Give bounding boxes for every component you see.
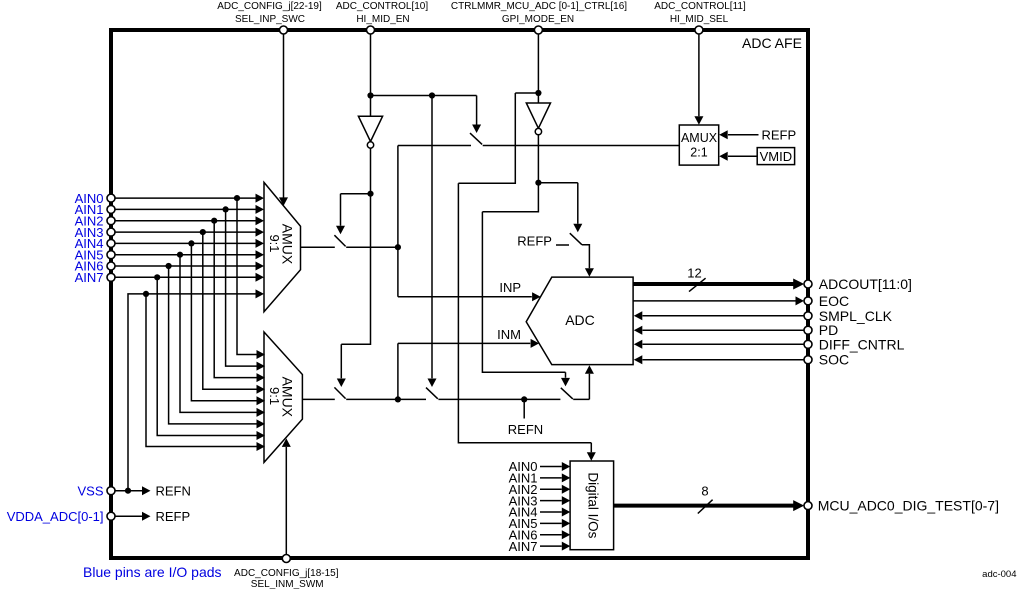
arrow AIN1 into U2	[257, 362, 266, 371]
arrow VSS into U1	[256, 289, 265, 298]
svg-text:SOC: SOC	[819, 352, 849, 368]
node AIN6 branch	[166, 263, 172, 269]
arrow AIN3 into U1	[256, 228, 265, 237]
arrow S6 control	[561, 378, 570, 387]
svg-text:AMUX: AMUX	[681, 131, 718, 145]
arrow VSS into U2	[257, 442, 266, 451]
arrow DIFF_CNTRL into U3	[634, 340, 643, 349]
wire AIN1 to U2	[226, 209, 257, 366]
inverter U6	[358, 116, 382, 141]
arrow AIN6 into U1	[256, 262, 265, 271]
pin ADCOUT[11:0]	[804, 280, 812, 288]
wire GPI_MODE_EN down to U7	[537, 34, 539, 103]
wire AIN4 to U2	[191, 243, 256, 400]
wire AIN6 to U5	[540, 534, 562, 536]
node AIN1 branch	[223, 206, 229, 212]
arrow REFN stub	[142, 486, 151, 495]
arrow AIN0 into U5	[562, 462, 571, 471]
svg-text:8: 8	[701, 484, 708, 499]
arrow AIN4 into U1	[256, 239, 265, 248]
node REFN	[521, 396, 527, 402]
svg-text:SEL_INP_SWC: SEL_INP_SWC	[235, 14, 305, 25]
arrow AIN6 into U2	[257, 419, 266, 428]
pin AIN3	[107, 228, 115, 236]
inverter U6 bubble	[367, 142, 373, 148]
node N2	[395, 396, 401, 402]
arrow into U5 enable	[587, 452, 596, 461]
wire U2 output to switch S3	[302, 398, 334, 400]
svg-text:12: 12	[687, 266, 701, 281]
wire VMID into U4	[728, 155, 757, 157]
pin SEL_INM_SWM	[282, 555, 290, 563]
arrow AIN0 into U2	[257, 350, 266, 359]
wire HI_MID_SEL to U4	[698, 34, 700, 116]
vmid reference box	[757, 148, 794, 165]
svg-text:REFN: REFN	[156, 483, 191, 498]
node AIN7 branch	[154, 274, 160, 280]
arrow S5 control	[573, 224, 582, 233]
pin AIN4	[107, 239, 115, 247]
svg-text:REFP: REFP	[762, 127, 797, 142]
wire VDDA to REFP stub	[115, 515, 142, 517]
wire REFP into U4	[728, 134, 759, 136]
wire SEL_INP_SWC to U1	[283, 34, 285, 198]
wire S3 to node N2	[346, 398, 398, 400]
arrow VMID into U4	[719, 152, 728, 161]
arrow bus MCU_ADC0_DIG_TEST	[793, 500, 804, 511]
switch S2	[334, 235, 345, 246]
arrow AIN3 into U5	[562, 496, 571, 505]
svg-text:VMID: VMID	[760, 149, 793, 164]
svg-text:ADC_CONFIG_j[22-19]: ADC_CONFIG_j[22-19]	[217, 1, 322, 12]
wire U6 output to node H3 and S3 corner	[341, 148, 370, 378]
wire SMPL_CLK	[643, 315, 805, 317]
wire AIN1 to U1	[115, 208, 256, 210]
node H1	[367, 92, 373, 98]
arrow S2 control	[336, 226, 345, 235]
arrow AIN7 into U2	[257, 431, 266, 440]
node G1	[535, 90, 541, 96]
wire REFN rail	[438, 398, 560, 400]
svg-text:ADC_CONTROL[11]: ADC_CONTROL[11]	[654, 1, 746, 12]
arrow AIN5 into U2	[257, 408, 266, 417]
svg-text:INP: INP	[499, 280, 521, 295]
wire AIN7 to U1	[115, 276, 256, 278]
svg-text:MCU_ADC0_DIG_TEST[0-7]: MCU_ADC0_DIG_TEST[0-7]	[818, 498, 999, 514]
pin AIN2	[107, 217, 115, 225]
pin PD	[804, 326, 812, 334]
switch S6	[561, 388, 573, 399]
svg-text:ADCOUT[11:0]: ADCOUT[11:0]	[819, 276, 912, 292]
switch S1	[470, 133, 482, 144]
pin VSS	[107, 487, 115, 495]
node AIN0 branch	[234, 195, 240, 201]
wire AIN3 to U1	[115, 231, 256, 233]
switch S4	[426, 388, 438, 399]
wire VSS to U1 ninth input	[128, 294, 256, 491]
arrow AIN2 into U5	[562, 485, 571, 494]
arrow AIN7 into U1	[256, 273, 265, 282]
wire AIN1 to U5	[540, 477, 562, 479]
wire AIN2 to U2	[214, 221, 256, 378]
wire AIN5 to U1	[115, 254, 256, 256]
slash bus MCU_ADC0_DIG_TEST	[698, 500, 713, 514]
node AIN3 branch	[200, 229, 206, 235]
amux U1 9:1 top	[264, 182, 301, 311]
wire AIN4 to U5	[540, 511, 562, 513]
arrow AIN4 into U2	[257, 396, 266, 405]
wire S6 to U3 refn	[573, 374, 589, 400]
pin SOC	[804, 356, 812, 364]
svg-text:AIN7: AIN7	[75, 270, 104, 285]
node VSS branch	[125, 488, 131, 494]
node G2	[535, 180, 541, 186]
wire U7 output down	[482, 135, 565, 378]
wire node N2 to switch S4	[398, 398, 426, 400]
node AIN2 branch	[211, 218, 217, 224]
svg-text:REFN: REFN	[508, 422, 543, 437]
wire S2 to node N1	[346, 246, 398, 248]
pin AIN6	[107, 262, 115, 270]
bus MCU_ADC0_DIG_TEST 8	[614, 504, 794, 508]
arrow INM into U3	[531, 339, 540, 348]
wire AIN7 to U5	[540, 545, 562, 547]
wire AIN7 to U2	[157, 277, 256, 435]
svg-text:REFP: REFP	[517, 234, 552, 249]
arrow REFP stub	[142, 512, 151, 521]
pin VDDA_ADC	[107, 512, 115, 520]
slash bus ADCOUT	[689, 278, 706, 291]
adc core U3	[526, 277, 633, 365]
arrow AIN1 into U1	[256, 205, 265, 214]
wire REFP stub	[556, 244, 569, 246]
svg-text:ADC_CONTROL[10]: ADC_CONTROL[10]	[336, 1, 428, 12]
svg-text:EOC: EOC	[819, 293, 849, 309]
wire AIN0 to U5	[540, 466, 562, 468]
arrow AIN3 into U2	[257, 385, 266, 394]
svg-text:AIN7: AIN7	[509, 539, 538, 554]
svg-text:DIFF_CNTRL: DIFF_CNTRL	[819, 336, 905, 352]
svg-text:ADC_CONFIG_j[18-15]: ADC_CONFIG_j[18-15]	[234, 568, 339, 579]
node AIN4 branch	[188, 240, 194, 246]
wire SOC	[643, 359, 805, 361]
svg-text:CTRLMMR_MCU_ADC [0-1]_CTRL[16]: CTRLMMR_MCU_ADC [0-1]_CTRL[16]	[451, 1, 627, 12]
wire node G1 to digital ios enable	[458, 93, 591, 452]
wire PD	[643, 329, 805, 331]
wire VSS to U2 ninth input	[146, 294, 257, 447]
pin SEL_INP_SWC	[280, 26, 288, 34]
amux U2 9:1 bottom	[264, 332, 302, 462]
wire AIN6 to U1	[115, 265, 256, 267]
wire AIN5 to U2	[180, 255, 257, 413]
svg-text:SEL_INM_SWM: SEL_INM_SWM	[251, 579, 324, 589]
wire AIN6 to U2	[169, 266, 257, 424]
arrow bus ADCOUT	[793, 279, 804, 290]
arrow INP into U3	[532, 292, 541, 301]
arrow SOC into U3	[634, 355, 643, 364]
pin HI_MID_SEL	[695, 26, 703, 34]
wire node G2 to switch S5 control	[538, 183, 577, 224]
wire HI_MID_EN down to node H1	[370, 34, 372, 116]
wire AIN4 to U1	[115, 242, 256, 244]
amux U4 2:1	[679, 125, 718, 165]
node AIN5 branch	[177, 252, 183, 258]
arrow REFP into U3 top	[585, 268, 594, 277]
arrow AIN4 into U5	[562, 508, 571, 517]
svg-text:VDDA_ADC[0-1]: VDDA_ADC[0-1]	[7, 509, 104, 524]
wire node H2 to switch S4 control	[431, 96, 433, 379]
pin AIN0	[107, 194, 115, 202]
svg-text:ADC AFE: ADC AFE	[742, 35, 802, 51]
arrow into U2 select	[282, 438, 291, 447]
svg-text:VSS: VSS	[77, 483, 103, 498]
arrow AIN0 into U1	[256, 194, 265, 203]
arrow S1 control	[472, 125, 481, 134]
arrow AIN1 into U5	[562, 473, 571, 482]
wire EOC	[633, 300, 795, 302]
wire REFN label stub	[523, 399, 525, 418]
node H3	[367, 191, 373, 197]
arrow PD into U3	[634, 326, 643, 335]
svg-text:HI_MID_EN: HI_MID_EN	[356, 14, 409, 25]
wire AIN0 to U1	[115, 197, 256, 199]
wire AIN2 to U1	[115, 220, 256, 222]
arrow REFP into U4	[719, 130, 728, 139]
inverter U7 bubble	[535, 128, 541, 134]
arrow AIN7 into U5	[562, 542, 571, 551]
ADC AFE block border	[111, 30, 808, 558]
svg-text:REFP: REFP	[156, 509, 191, 524]
svg-text:INM: INM	[497, 327, 521, 342]
pin EOC	[804, 297, 812, 305]
wire U1 output to switch S2	[301, 246, 335, 248]
wire AIN2 to U5	[540, 488, 562, 490]
svg-text:Blue pins are I/O pads: Blue pins are I/O pads	[83, 564, 222, 580]
pin MCU_ADC0_DIG_TEST	[804, 502, 812, 510]
node H2	[429, 92, 435, 98]
pin AIN7	[107, 273, 115, 281]
arrow S4 control	[428, 379, 437, 388]
arrow AIN2 into U2	[257, 373, 266, 382]
wire node H1 to switch S1 control	[371, 96, 477, 125]
svg-text:Digital I/Os: Digital I/Os	[586, 472, 601, 538]
pin HI_MID_EN	[367, 26, 375, 34]
wire AIN3 to U5	[540, 500, 562, 502]
digital ios block U5	[570, 461, 614, 550]
bus ADCOUT 12	[633, 282, 794, 286]
svg-text:GPI_MODE_EN: GPI_MODE_EN	[502, 14, 574, 25]
pin AIN1	[107, 205, 115, 213]
arrow AIN2 into U1	[256, 216, 265, 225]
svg-text:9:1: 9:1	[267, 387, 282, 405]
arrow AIN5 into U5	[562, 519, 571, 528]
arrow AIN5 into U1	[256, 250, 265, 259]
svg-text:adc-004: adc-004	[982, 569, 1016, 580]
arrow into U1 select	[279, 197, 288, 206]
svg-text:ADC: ADC	[565, 312, 595, 328]
pin GPI_MODE_EN	[534, 26, 542, 34]
wire DIFF_CNTRL	[643, 343, 805, 345]
switch S5	[570, 233, 582, 245]
wire AIN5 to U5	[540, 522, 562, 524]
arrow SMPL_CLK into U3	[634, 311, 643, 320]
node N1	[395, 244, 401, 250]
wire AIN0 to U2	[237, 198, 257, 354]
svg-text:2:1: 2:1	[690, 146, 707, 160]
switch S3	[334, 387, 345, 398]
wire node H3 to switch S2 control	[341, 194, 371, 226]
wire S5 to U3 refp	[582, 245, 589, 268]
arrow REFN into U3 bottom	[585, 365, 594, 374]
pin AIN5	[107, 251, 115, 259]
arrow AIN6 into U5	[562, 530, 571, 539]
arrow S3 control	[337, 379, 346, 388]
svg-text:9:1: 9:1	[267, 234, 282, 252]
wire HI MID rail	[398, 145, 679, 147]
wire AIN3 to U2	[203, 232, 257, 389]
pin SMPL_CLK	[804, 312, 812, 320]
wire node N1 column INP	[398, 146, 532, 297]
wire INM from node N2	[398, 343, 530, 399]
node ninth branch	[143, 291, 149, 297]
arrow into U4 select	[694, 116, 703, 125]
arrow EOC	[796, 296, 805, 305]
svg-text:HI_MID_SEL: HI_MID_SEL	[670, 14, 729, 25]
wire VSS to REFN stub	[115, 490, 142, 492]
pin DIFF_CNTRL	[804, 340, 812, 348]
inverter U7	[526, 103, 550, 128]
wire SEL_INM_SWM to U2	[285, 447, 287, 555]
